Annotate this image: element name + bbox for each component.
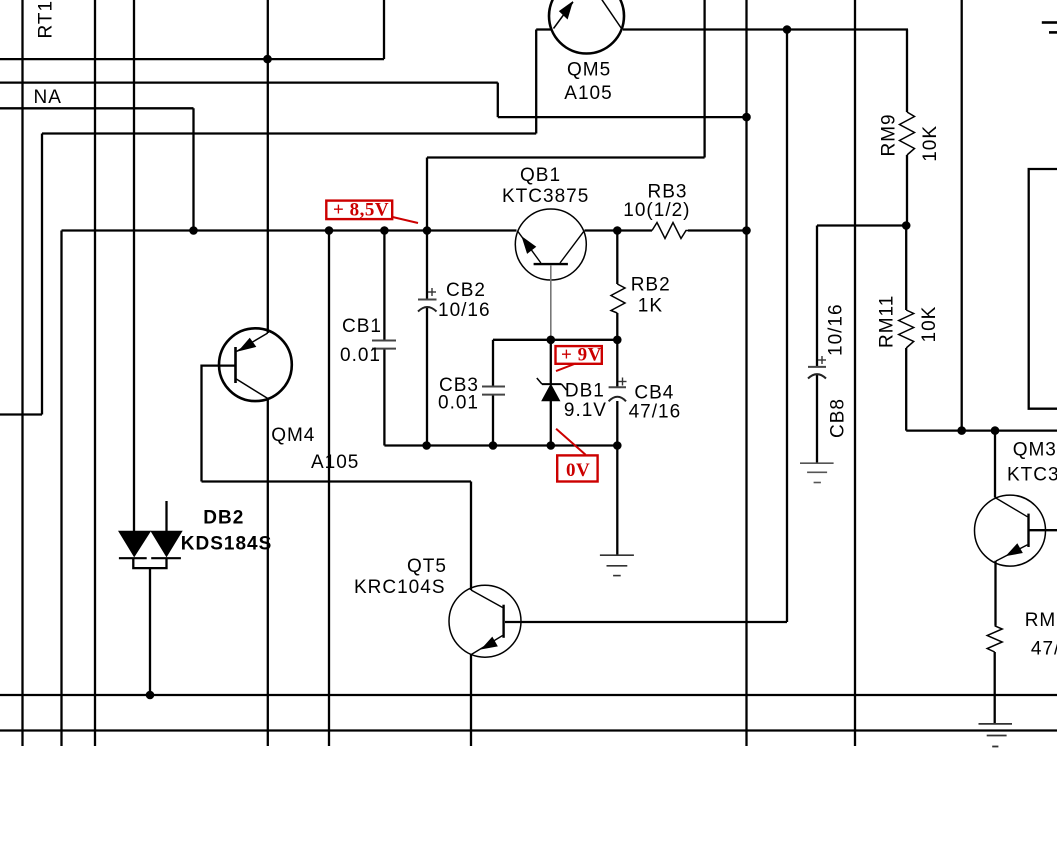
zener diode DB1	[537, 378, 567, 401]
junction dot DB2 bottom	[146, 691, 155, 700]
svg-text:KTC3875: KTC3875	[502, 186, 589, 207]
svg-text:CB4: CB4	[634, 382, 674, 403]
wire horizontal y=225.5 CB8 net	[817, 224, 907, 226]
wire ground lead x=617.3	[616, 446, 618, 556]
svg-text:QM5: QM5	[567, 60, 611, 81]
svg-text:DB2: DB2	[203, 508, 244, 529]
wire horizontal y=481.5 A105 net	[202, 480, 472, 482]
wire DB2 bottom lead x=150	[149, 568, 151, 695]
ground below DB1	[600, 555, 634, 575]
wire vertical x=193.5	[192, 108, 194, 230]
svg-text:A105: A105	[564, 83, 612, 104]
wire QT5 collector x=471	[470, 482, 472, 591]
voltage callout +9V	[556, 344, 602, 371]
svg-text:+ 9V: + 9V	[561, 344, 602, 365]
junction dot rail x384	[380, 226, 389, 235]
svg-text:+ 8,5V: + 8,5V	[333, 200, 389, 221]
svg-text:DB1: DB1	[565, 381, 605, 402]
wire QT5 emitter x=471	[470, 655, 472, 747]
junction dot x961	[957, 426, 966, 435]
wire QM3 emitter lead	[994, 561, 996, 626]
junction dot rail x427	[423, 226, 432, 235]
svg-text:0V: 0V	[566, 460, 590, 481]
wire RM9 bottom lead	[906, 155, 908, 226]
wire RM11 top lead	[905, 226, 907, 311]
svg-text:RT15: RT15	[36, 0, 57, 39]
svg-text:10K: 10K	[920, 125, 941, 162]
wire horizontal y=108.3 NA net	[0, 107, 194, 109]
wire horizontal y=157.5	[427, 156, 705, 158]
capacitor CB1 plates	[372, 341, 396, 349]
wire vertical x=855	[854, 0, 856, 746]
wire CB1 bottom lead	[383, 349, 385, 446]
wire horizontal y=414.5 left edge	[0, 413, 42, 415]
connector box right edge	[1029, 169, 1057, 409]
capacitor CB2 plate and arc	[418, 300, 437, 312]
wire QM5 emitter vertical x=536.2	[535, 30, 537, 134]
svg-text:RB2: RB2	[631, 275, 671, 296]
resistor RB2 1K zigzag	[611, 284, 625, 313]
wire DB2 cathode bracket	[133, 558, 166, 569]
ground below RM8	[979, 724, 1013, 747]
svg-text:NA: NA	[34, 87, 62, 108]
wire QM4 collector bottom x=267.8	[267, 399, 269, 747]
transistor QT5	[449, 585, 521, 657]
wire RB2 top lead	[616, 231, 618, 285]
svg-text:RM9: RM9	[879, 113, 900, 156]
wire RB2 bottom lead	[616, 313, 618, 340]
wire CB2 bottom lead	[426, 308, 428, 446]
wire horizontal y=59.1	[0, 58, 384, 60]
junction dot y59 x267	[263, 55, 272, 64]
svg-text:KDS184S: KDS184S	[181, 534, 272, 555]
wire horizontal y=82.6	[0, 81, 498, 83]
junction dot QM5 right	[783, 25, 792, 34]
wire CB1 top lead x=384.4	[383, 231, 385, 340]
wire vertical x=704.6	[703, 0, 705, 158]
wire capacitor bottom rail y=445.5	[384, 444, 617, 446]
svg-text:47/16: 47/16	[1031, 639, 1057, 660]
wire +8.5V rail y=230.5	[62, 229, 517, 231]
wire bottom rail 2 y=730.5	[0, 729, 1057, 731]
ground partial top right	[1042, 23, 1057, 33]
svg-text:1K: 1K	[638, 296, 663, 317]
wire vertical x=961.7	[961, 0, 963, 431]
svg-text:QT5: QT5	[407, 556, 447, 577]
wire vertical x=746.5	[745, 0, 747, 746]
resistor RB3 10(1/2) zigzag	[652, 223, 688, 239]
svg-text:KRC104S: KRC104S	[354, 577, 446, 598]
wire QB1 collector to RB3	[585, 229, 653, 231]
wire CB2 top lead x=427	[426, 231, 428, 299]
junction dot bottom CB4	[613, 441, 622, 450]
capacitor CB3 plates	[482, 387, 505, 395]
wire vertical x=42	[41, 134, 43, 415]
junction dot bottom CB2	[422, 441, 431, 450]
svg-text:0.01: 0.01	[438, 393, 479, 414]
svg-text:10/16: 10/16	[826, 303, 847, 356]
capacitor CB2 plus	[428, 288, 436, 296]
wire QM4 emitter top x=267.8	[267, 0, 269, 333]
wire horizontal y=133.5	[42, 132, 536, 134]
wire RM11 bottom lead	[905, 348, 907, 431]
wire QM3 base y=530.2	[1029, 529, 1057, 531]
wire horizontal y=430.6	[906, 429, 1057, 431]
wire vertical x=329	[328, 231, 330, 747]
transistor QM5	[549, 0, 624, 54]
wire QM5 collector lead to RM9	[623, 28, 908, 30]
junction dot 9V left	[547, 336, 556, 345]
wire vertical x=787	[786, 30, 788, 623]
svg-text:9.1V: 9.1V	[564, 400, 607, 421]
svg-text:A105: A105	[311, 452, 359, 473]
wire RM8 bottom lead	[994, 652, 996, 724]
wire bottom rail 1 y=695	[0, 694, 1057, 696]
junction dot rail x193	[189, 226, 198, 235]
resistor RM8 zigzag	[987, 626, 1002, 652]
wire vertical x=384 top	[383, 0, 385, 59]
junction dot bottom DB1	[547, 441, 556, 450]
capacitor CB4 plus	[619, 378, 627, 386]
junction dot RB2 top	[613, 226, 622, 235]
resistor RM11 10K zigzag	[899, 310, 914, 348]
wire QM3 collector lead	[994, 431, 996, 498]
wire QM4 base lead	[202, 366, 236, 482]
wire QB1 base lead grey	[550, 265, 552, 340]
junction dot RM9 bottom	[902, 221, 911, 230]
wire CB4 top lead	[616, 340, 618, 387]
wire vertical x=61.5	[60, 231, 62, 747]
wire CB4 bottom lead	[616, 401, 618, 446]
junction dot rail x329	[325, 226, 334, 235]
svg-text:10(1/2): 10(1/2)	[623, 200, 690, 221]
transistor QB1	[515, 209, 586, 280]
svg-text:0.01: 0.01	[340, 345, 381, 366]
svg-text:QB1: QB1	[520, 165, 561, 186]
junction dot x746 y117	[742, 113, 751, 122]
capacitor CB4 plate and arc	[609, 387, 626, 401]
wire vertical x=134 to DB2	[133, 0, 135, 532]
wire vertical x=497.8	[497, 83, 499, 118]
ground below CB8	[800, 463, 834, 482]
wire horizontal y=117.1	[498, 116, 747, 118]
svg-text:QM4: QM4	[271, 425, 315, 446]
junction dot bottom CB3	[489, 441, 498, 450]
wire DB1 anode lead	[550, 401, 552, 446]
wire QT5 base y=622	[505, 621, 787, 623]
voltage callout 0V	[556, 429, 598, 482]
voltage callout +8.5V	[326, 200, 418, 223]
svg-text:CB2: CB2	[446, 280, 486, 301]
svg-text:QM3: QM3	[1013, 440, 1057, 461]
wire DB2 right anode stub	[165, 501, 167, 532]
svg-text:CB8: CB8	[828, 398, 849, 438]
svg-text:10K: 10K	[919, 306, 940, 343]
dual diode DB2	[119, 531, 182, 558]
svg-text:47/16: 47/16	[629, 401, 682, 422]
svg-text:10/16: 10/16	[438, 300, 491, 321]
wire vertical x=427 upper	[426, 158, 428, 231]
svg-text:KTC38: KTC38	[1007, 464, 1057, 485]
wire CB3 top lead x=493	[492, 340, 494, 386]
wire CB8 top lead x=817	[816, 226, 818, 367]
wire RB3 right lead	[688, 229, 747, 231]
wire RM9 top lead	[906, 30, 908, 113]
wire DB1 cathode lead	[550, 340, 552, 384]
capacitor CB8 plus	[818, 356, 826, 364]
junction dot QM3 collector	[991, 426, 1000, 435]
svg-text:CB1: CB1	[342, 316, 382, 337]
wire CB8 bottom lead	[816, 374, 818, 463]
junction dot 9V right	[613, 336, 622, 345]
capacitor CB8 plate and arc	[808, 367, 826, 379]
svg-text:RM8: RM8	[1025, 610, 1057, 631]
wire vertical x=95	[94, 0, 96, 746]
resistor RM9 10K zigzag	[900, 112, 915, 155]
junction dot RB3 right	[742, 226, 751, 235]
svg-text:RM11: RM11	[876, 295, 897, 348]
wire QM5 emitter lead	[536, 28, 550, 30]
wire horizontal y=339.8 9V net	[493, 339, 617, 341]
wire CB3 bottom lead	[492, 395, 494, 446]
transistor QM3	[975, 495, 1046, 566]
wire vertical x=22.5	[21, 0, 23, 746]
transistor QM4	[219, 328, 292, 401]
